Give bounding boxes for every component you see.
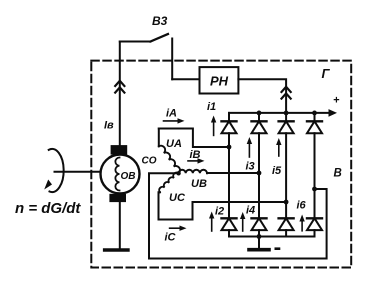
chevron marks on PH wire [282,87,291,99]
winding UA coil [159,146,180,174]
svg-text:В: В [334,168,342,180]
diode VD2 lower [222,218,237,236]
regulator PH box [200,67,239,93]
rotor winding wavy [115,158,119,191]
current arrow i1 [211,116,216,136]
svg-text:n = dG/dt: n = dG/dt [15,200,81,217]
shaft wire [55,171,101,173]
rotor circle OB [101,155,140,194]
svg-text:i3: i3 [246,161,255,173]
node bus col2 [257,111,262,116]
stator phase A wire [159,129,229,148]
current arrow i4 [240,212,245,231]
label minus [275,247,281,250]
node star center [176,171,180,175]
wire UA coil lead [158,129,160,147]
diode VD8 lower [307,218,322,236]
svg-text:iB: iB [190,149,201,161]
svg-text:UC: UC [169,192,186,204]
rotation arrow [49,149,64,192]
svg-text:i2: i2 [215,206,224,218]
svg-text:i5: i5 [272,165,282,177]
winding UC coil [159,173,178,193]
current arrow iB [188,158,205,163]
node bus col3 [284,111,289,116]
wire leg 2 vertical [258,173,260,218]
current arrow i2 [209,212,214,232]
rotation arrowhead [44,180,52,190]
plus bus wire [229,112,330,114]
wire leg 1 vertical [228,147,230,218]
stator phase B wire [207,172,259,174]
diode VD6 lower [279,218,294,236]
svg-text:+: + [333,95,340,107]
current arrow i5 [276,138,281,156]
node bus col4 [312,111,317,116]
node phase B [257,171,262,176]
current arrow iA [164,118,185,123]
winding UB coil [179,170,207,174]
current arrow i6 [299,215,304,231]
diode VD7 upper [307,113,322,189]
rotor ground stub [119,202,121,248]
stator phase C wire [159,192,287,219]
rotor brush bottom [109,194,126,202]
wire switch to PH box [172,78,199,80]
node phase C [284,200,289,205]
svg-text:UA: UA [166,138,182,150]
minus bus wire [229,236,315,238]
svg-text:iA: iA [166,108,177,120]
svg-text:В3: В3 [152,14,168,28]
svg-text:i1: i1 [207,101,216,113]
wire field left vertical [119,42,121,146]
svg-text:UB: UB [191,178,207,190]
diode VD5 upper [279,113,294,202]
current arrow i3 [247,137,252,157]
svg-text:ОВ: ОВ [121,171,136,182]
rotor brush top [111,145,128,155]
diode VD4 lower [252,218,267,236]
switch B3 right terminal [171,39,173,80]
chevron marks on field wire [115,81,124,93]
wire leg 4 vertical [314,189,316,218]
svg-text:iC: iC [165,232,177,244]
svg-text:Iв: Iв [104,120,114,132]
wire switch top horizontal [120,41,151,43]
svg-text:РН: РН [210,74,229,89]
plus bus arrowhead [329,109,338,117]
generator dashed boundary [91,61,351,268]
minus terminal bar [249,248,269,252]
node minus bus [257,234,262,239]
wire leg 3 vertical [285,202,287,218]
switch B3 blade [150,34,168,42]
current arrow iC [170,226,187,231]
neutral wire loop [149,173,327,258]
diode VD1 upper [222,113,237,147]
svg-text:i4: i4 [246,205,255,217]
svg-text:СО: СО [142,156,157,167]
diode VD3 upper [252,113,267,173]
minus terminal stub [258,237,260,249]
node phase A [227,145,232,150]
node B terminal [312,187,317,192]
rotor ground bar [105,248,128,251]
wire PH to bus [238,79,286,113]
svg-text:i6: i6 [297,200,307,212]
svg-text:Г: Г [322,66,331,81]
